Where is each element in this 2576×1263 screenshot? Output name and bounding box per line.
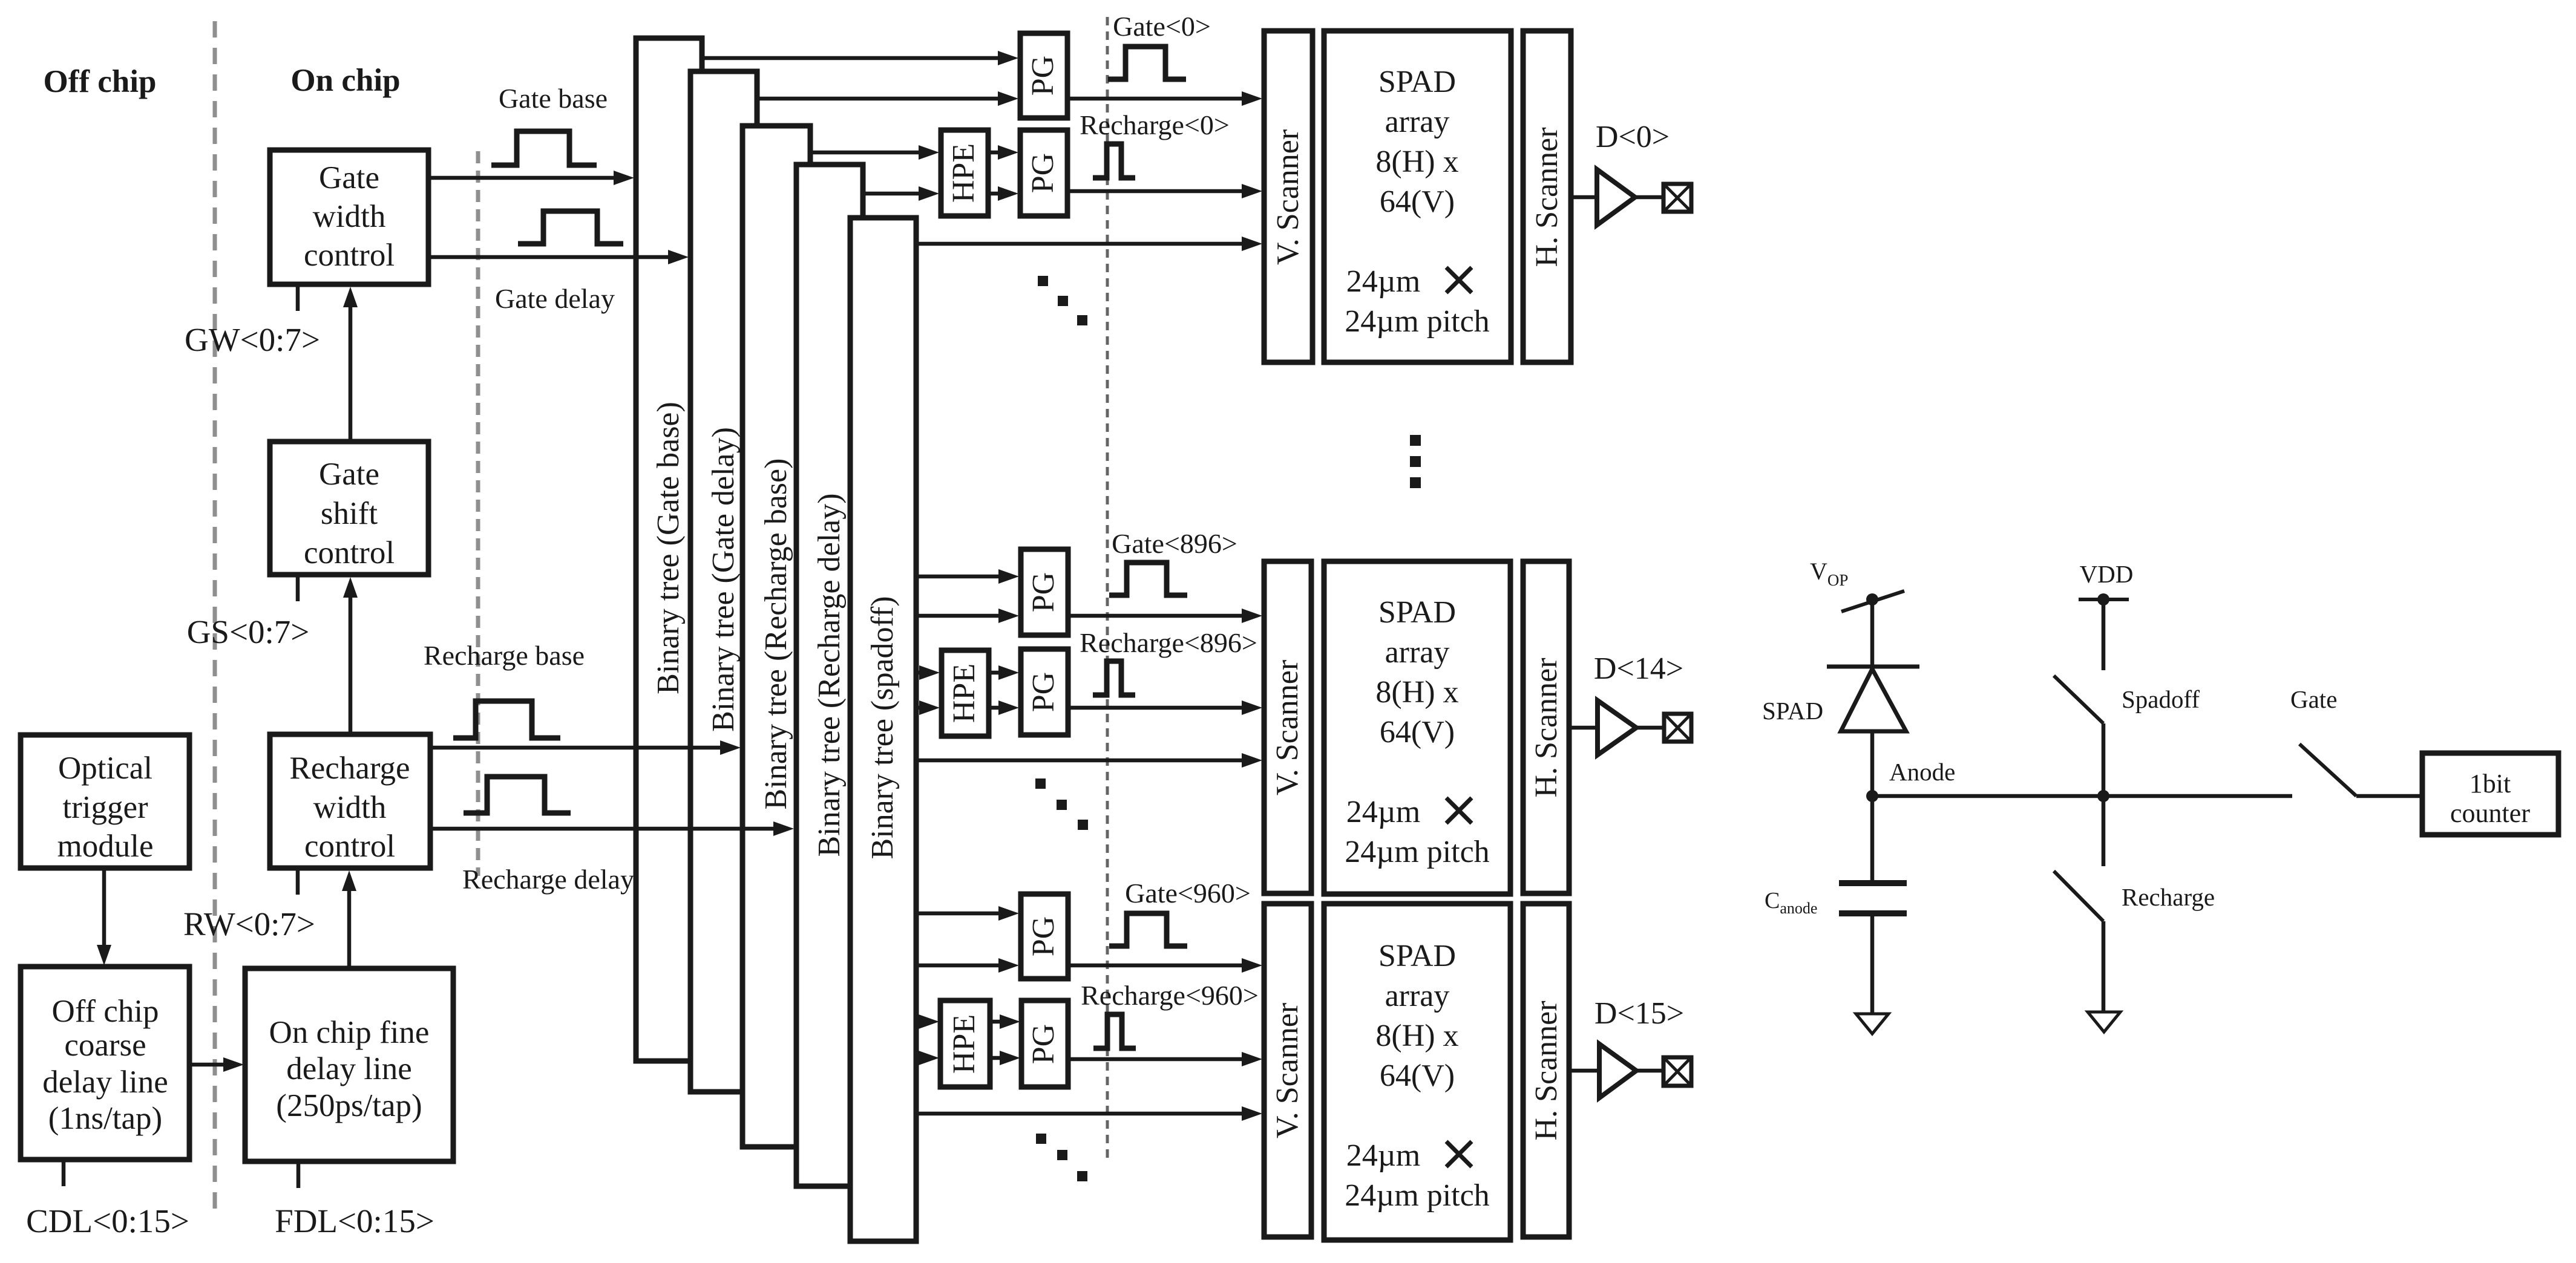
svg-text:V. Scanner: V. Scanner	[1271, 129, 1305, 265]
svg-text:PG: PG	[1026, 1024, 1061, 1064]
svg-text:Gate<960>: Gate<960>	[1125, 878, 1251, 909]
svg-text:Recharge: Recharge	[289, 751, 410, 786]
wire arrow gate-delay line to PG (row 960)	[915, 958, 1019, 973]
svg-text:shift: shift	[321, 496, 378, 531]
svg-text:Off chip: Off chip	[51, 994, 159, 1029]
dashed delay reference line (waveform column)	[476, 151, 480, 876]
waveform pulse Recharge delay	[464, 777, 571, 813]
buffer triangle (row 896)	[1598, 700, 1636, 755]
wire H. Scanner to output buffer (row 960)	[1569, 1069, 1599, 1073]
svg-text:8(H) x: 8(H) x	[1375, 145, 1458, 179]
switch Recharge blade	[2054, 871, 2103, 921]
svg-text:On chip: On chip	[290, 63, 400, 98]
stub CDL bus under coarse delay line	[62, 1160, 66, 1186]
svg-text:Gate<0>: Gate<0>	[1113, 11, 1211, 42]
dashed pixel-column reference line	[1106, 17, 1109, 1160]
waveform pulse Gate<0>	[1108, 47, 1186, 79]
wire arrow PG gate output Gate<960> to V.Scanner	[1068, 958, 1262, 973]
block PG gate (row 960)	[1021, 894, 1068, 979]
svg-text:Binary tree (Recharge delay): Binary tree (Recharge delay)	[812, 493, 847, 857]
pad symbol D<14>	[1664, 714, 1691, 742]
waveform pulse Gate base	[491, 131, 597, 165]
ground under C_anode	[1856, 1014, 1889, 1034]
buffer triangle (row 0)	[1597, 169, 1635, 225]
svg-text:array: array	[1385, 105, 1450, 139]
switch Spadoff blade	[2054, 676, 2103, 723]
svg-text:1bit: 1bit	[2469, 769, 2511, 798]
ellipsis dots between row 896 and row 960	[1035, 778, 1088, 830]
ellipsis dots below row 960	[1036, 1134, 1087, 1181]
svg-text:delay line: delay line	[42, 1065, 168, 1100]
block HPE (row 896)	[942, 650, 989, 736]
node spadoff junction	[2097, 790, 2109, 802]
dashed chip-boundary line (Off chip / On chip)	[213, 21, 217, 1213]
svg-text:(1ns/tap): (1ns/tap)	[48, 1101, 162, 1136]
stub GW bus under Gate width control	[296, 284, 300, 311]
waveform pulse Gate delay	[518, 211, 623, 244]
svg-text:Binary tree (Gate delay): Binary tree (Gate delay)	[706, 427, 741, 732]
svg-text:On chip fine: On chip fine	[269, 1015, 430, 1050]
wire buffer to pad (row 960)	[1636, 1069, 1663, 1073]
block HPE (row 960)	[940, 1000, 990, 1087]
svg-text:24µm: 24µm	[1346, 264, 1420, 299]
svg-text:64(V): 64(V)	[1380, 1059, 1455, 1093]
svg-text:FDL<0:15>: FDL<0:15>	[275, 1203, 434, 1239]
wire Anode horizontal rail to Gate switch	[1872, 794, 2292, 798]
svg-text:Gate: Gate	[319, 457, 379, 492]
block Off chip coarse delay line (1ns/tap)	[21, 967, 189, 1160]
svg-text:D<14>: D<14>	[1594, 651, 1683, 686]
block Gate shift control	[270, 442, 428, 575]
node Anode	[1866, 790, 1878, 802]
wire arrow Gate delay into tree 2	[428, 250, 689, 264]
wire arrow Gate base into tree 1	[428, 171, 634, 185]
svg-text:D<0>: D<0>	[1596, 120, 1670, 154]
wire Gate switch to 1bit counter	[2356, 794, 2422, 798]
block SPAD array (row 960)	[1324, 904, 1510, 1240]
wire arrows HPE to PG (row 0)	[988, 145, 1018, 201]
block SPAD array (row 896)	[1324, 561, 1510, 894]
block PG recharge (row 896)	[1021, 649, 1068, 735]
node VDD	[2097, 593, 2109, 605]
svg-text:PG: PG	[1026, 672, 1061, 712]
block PG gate (row 0)	[1020, 33, 1067, 118]
wire arrow gate-delay line to PG (row 896)	[915, 609, 1019, 623]
block Recharge width control	[270, 734, 430, 868]
wire arrow PG gate output Gate<0> to V.Scanner	[1067, 91, 1262, 106]
svg-text:Recharge<0>: Recharge<0>	[1080, 109, 1230, 140]
svg-text:H. Scanner: H. Scanner	[1530, 127, 1564, 267]
block PG recharge (row 0)	[1020, 130, 1067, 216]
block H. Scanner (row 896)	[1523, 561, 1569, 893]
svg-text:Recharge delay: Recharge delay	[462, 864, 634, 895]
block Binary tree (Gate base)	[636, 38, 702, 1061]
svg-text:Gate<896>: Gate<896>	[1112, 528, 1237, 559]
svg-text:Optical: Optical	[58, 751, 152, 786]
svg-text:24µm: 24µm	[1346, 1138, 1420, 1173]
svg-text:Anode: Anode	[1889, 758, 1955, 786]
block V. Scanner (row 960)	[1264, 904, 1311, 1237]
svg-text:array: array	[1385, 635, 1450, 670]
svg-text:width: width	[313, 790, 387, 825]
block HPE (row 0)	[941, 130, 988, 216]
wire arrow Recharge delay into tree 4	[430, 821, 794, 836]
block PG gate (row 896)	[1021, 549, 1068, 635]
stub RW bus under Recharge width control	[296, 868, 300, 895]
wire arrow fine delay line up to Recharge width control	[342, 870, 356, 968]
wire arrow Optical trigger to coarse delay line	[97, 868, 111, 965]
svg-text:control: control	[304, 535, 395, 570]
svg-text:24µm: 24µm	[1346, 795, 1420, 829]
svg-text:64(V): 64(V)	[1380, 184, 1455, 219]
wire arrow gate-base line to PG (row 896)	[915, 569, 1019, 584]
svg-text:24µm pitch: 24µm pitch	[1345, 835, 1489, 869]
wire arrow spadoff line to V.Scanner (row 960)	[915, 1106, 1262, 1121]
svg-text:width: width	[313, 199, 386, 234]
svg-text:8(H) x: 8(H) x	[1375, 675, 1458, 710]
svg-text:Gate delay: Gate delay	[495, 283, 615, 314]
svg-text:24µm pitch: 24µm pitch	[1345, 1178, 1489, 1213]
waveform pulse Recharge<960>	[1093, 1014, 1136, 1048]
svg-text:HPE: HPE	[946, 143, 981, 203]
block SPAD array (row 0)	[1324, 31, 1511, 362]
wire arrow Gate shift control up to Gate width control	[343, 287, 358, 442]
svg-text:Binary tree (Gate base): Binary tree (Gate base)	[651, 402, 686, 694]
wire arrow tree2 to PG (gate, row 0)	[757, 91, 1018, 106]
svg-text:SPAD: SPAD	[1378, 65, 1456, 99]
wire arrow gate-base line to PG (row 960)	[915, 906, 1019, 921]
block On chip fine delay line (250ps/tap)	[245, 968, 453, 1161]
wire arrows HPE to PG (row 960)	[990, 1014, 1020, 1065]
ground under Recharge	[2088, 1012, 2120, 1032]
wire arrow tree3 to HPE (row 0)	[810, 145, 939, 160]
wire SPAD anode to node	[1870, 731, 1875, 796]
svg-text:H. Scanner: H. Scanner	[1529, 1000, 1564, 1140]
block Gate width control	[270, 150, 428, 284]
svg-text:D<15>: D<15>	[1594, 996, 1684, 1031]
wire arrow recharge-base line to HPE (row 896)	[915, 665, 940, 680]
wire arrow recharge-base line to HPE (row 960)	[915, 1014, 939, 1029]
wire Spadoff switch to anode rail	[2102, 723, 2106, 796]
wire arrow tree4 to HPE (row 0)	[863, 186, 939, 201]
wire arrow tree1 to PG (gate, row 0)	[702, 51, 1018, 65]
svg-text:Recharge: Recharge	[2122, 883, 2215, 911]
svg-text:GS<0:7>: GS<0:7>	[187, 613, 310, 650]
block Binary tree (Gate delay)	[690, 71, 757, 1092]
block Binary tree (spadoff)	[850, 218, 916, 1241]
wire arrow Recharge width control up to Gate shift control	[343, 577, 358, 734]
wire arrow recharge-delay line to HPE (row 896)	[915, 700, 940, 715]
svg-text:GW<0:7>: GW<0:7>	[185, 321, 320, 358]
svg-text:array: array	[1385, 979, 1450, 1013]
svg-text:control: control	[304, 238, 395, 273]
svg-text:SPAD: SPAD	[1378, 595, 1456, 630]
svg-text:VDD: VDD	[2080, 560, 2134, 588]
wire H. Scanner to output buffer (row 0)	[1571, 195, 1597, 200]
wire V_OP to SPAD cathode	[1870, 599, 1875, 667]
vertical ellipsis between array row 0 and row 896	[1410, 435, 1421, 488]
svg-text:module: module	[57, 829, 154, 864]
svg-text:CDL<0:15>: CDL<0:15>	[26, 1203, 189, 1239]
stub GS bus under Gate shift control	[296, 575, 300, 601]
wire arrow recharge-delay line to HPE (row 960)	[915, 1051, 939, 1065]
svg-text:HPE: HPE	[947, 1014, 982, 1074]
svg-text:24µm pitch: 24µm pitch	[1345, 304, 1489, 339]
waveform pulse Recharge base	[453, 701, 560, 738]
block 1bit counter	[2422, 753, 2558, 835]
wire Recharge switch to ground	[2102, 921, 2106, 1012]
waveform pulse Gate<896>	[1109, 563, 1187, 595]
svg-text:Recharge<960>: Recharge<960>	[1081, 980, 1259, 1011]
svg-text:(250ps/tap): (250ps/tap)	[276, 1088, 422, 1123]
waveform pulse Recharge<0>	[1093, 144, 1135, 178]
wire junction down to Recharge switch	[2102, 796, 2106, 866]
svg-text:Binary tree (Recharge base): Binary tree (Recharge base)	[759, 459, 793, 810]
block Binary tree (Recharge delay)	[796, 165, 863, 1186]
block Binary tree (Recharge base)	[742, 126, 810, 1147]
terminal V_OP slash	[1841, 591, 1904, 612]
svg-text:Spadoff: Spadoff	[2122, 685, 2200, 713]
block V. Scanner (row 0)	[1264, 31, 1313, 362]
svg-text:8(H) x: 8(H) x	[1375, 1019, 1458, 1053]
terminal VDD bar	[2079, 598, 2129, 601]
switch Gate blade	[2299, 744, 2356, 796]
svg-text:HPE: HPE	[947, 664, 982, 723]
wire buffer to pad (row 0)	[1635, 195, 1663, 200]
wire arrow coarse delay line to fine delay line	[189, 1057, 244, 1072]
svg-text:delay line: delay line	[286, 1051, 412, 1086]
node V_OP	[1866, 593, 1878, 605]
pad symbol D<15>	[1663, 1057, 1691, 1086]
svg-text:Recharge<896>: Recharge<896>	[1080, 627, 1257, 658]
wire VDD down to Spadoff switch	[2102, 599, 2106, 670]
buffer triangle (row 960)	[1599, 1044, 1636, 1098]
wire arrow PG recharge output Recharge<0> to V.Scanner	[1067, 184, 1262, 198]
wire arrow spadoff tree to V.Scanner (row 0)	[916, 237, 1262, 251]
svg-text:PG: PG	[1026, 572, 1061, 612]
ellipsis dots between row 0 and row 896	[1038, 276, 1087, 325]
SPAD diode cathode bar	[1827, 665, 1919, 669]
svg-text:Recharge base: Recharge base	[424, 640, 585, 671]
svg-text:RW<0:7>: RW<0:7>	[183, 906, 315, 942]
svg-text:trigger: trigger	[62, 790, 148, 825]
wire Anode down to C_anode	[1870, 796, 1875, 883]
svg-text:PG: PG	[1026, 916, 1061, 956]
block PG recharge (row 960)	[1021, 1000, 1068, 1087]
wire arrow PG recharge output Recharge<896> to V.Scanner	[1068, 700, 1262, 715]
svg-text:Off chip: Off chip	[44, 64, 157, 99]
wire arrow PG gate output Gate<896> to V.Scanner	[1068, 609, 1262, 623]
svg-text:coarse: coarse	[64, 1028, 146, 1063]
svg-text:control: control	[304, 829, 395, 864]
block H. Scanner (row 960)	[1523, 904, 1569, 1237]
svg-text:SPAD: SPAD	[1378, 939, 1456, 973]
block H. Scanner (row 0)	[1523, 31, 1571, 362]
svg-text:Gate: Gate	[2290, 685, 2337, 713]
wire arrows HPE to PG (row 896)	[989, 665, 1019, 715]
svg-text:Gate: Gate	[319, 160, 379, 195]
svg-text:counter: counter	[2450, 798, 2530, 828]
wire C_anode to ground	[1870, 913, 1875, 1014]
svg-text:H. Scanner: H. Scanner	[1529, 658, 1564, 797]
svg-text:Binary tree (spadoff): Binary tree (spadoff)	[865, 596, 900, 859]
block Optical trigger module	[21, 735, 189, 868]
svg-text:SPAD: SPAD	[1762, 697, 1823, 725]
wire arrow spadoff line to V.Scanner (row 896)	[915, 753, 1262, 768]
svg-text:V. Scanner: V. Scanner	[1270, 660, 1305, 795]
svg-text:PG: PG	[1026, 153, 1060, 193]
capacitor C_anode	[1839, 883, 1907, 913]
wire arrow Recharge base into tree 3	[430, 740, 741, 755]
wire H. Scanner to output buffer (row 896)	[1569, 726, 1598, 730]
waveform pulse Recharge<896>	[1093, 661, 1135, 695]
svg-text:64(V): 64(V)	[1380, 715, 1455, 749]
wire buffer to pad (row 896)	[1636, 726, 1664, 730]
waveform pulse Gate<960>	[1109, 913, 1187, 946]
svg-text:PG: PG	[1026, 56, 1060, 96]
svg-text:V. Scanner: V. Scanner	[1270, 1003, 1305, 1138]
wire arrow PG recharge output Recharge<960> to V.Scanner	[1068, 1052, 1262, 1066]
SPAD diode triangle	[1841, 669, 1906, 731]
svg-text:Gate base: Gate base	[499, 83, 608, 114]
block V. Scanner (row 896)	[1264, 561, 1311, 893]
stub FDL bus under fine delay line	[297, 1161, 301, 1188]
pad symbol D<0>	[1663, 184, 1691, 212]
